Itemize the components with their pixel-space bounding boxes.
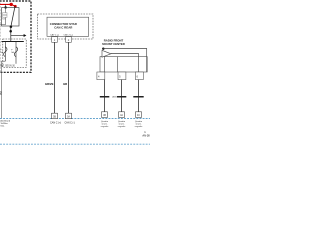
label under splice 2 (118, 120, 126, 128)
wire pin2 feed (117, 57, 119, 72)
wire fused output left (2, 61, 6, 118)
pin 1 (52, 37, 58, 43)
splice radio 1 (102, 112, 108, 118)
splice radio 2 (119, 112, 125, 118)
wire radio 3 (138, 80, 140, 112)
pin C (135, 72, 143, 80)
wire coil feed stub (5, 4, 7, 7)
svg-text:5A: 5A (67, 115, 70, 118)
connector tick 3 (133, 96, 143, 98)
svg-text:CAN C (-): CAN C (-) (64, 122, 75, 125)
label under splice 3 (135, 120, 143, 128)
relay switch lever (11, 6, 15, 27)
pin B (118, 72, 126, 80)
wire branch with arrow (11, 35, 24, 37)
fuse F1 (4, 42, 7, 62)
wire radio 1 (104, 80, 106, 112)
fuse F2 (14, 42, 17, 64)
svg-text:CAV 1 (-): CAV 1 (-) (50, 34, 59, 37)
relay K1 box (2, 8, 20, 26)
node lever bottom (10, 26, 13, 29)
connector star box (47, 17, 89, 36)
splice 2 (66, 113, 72, 119)
wire battery feed (red) (0, 4, 15, 6)
svg-text:segnale: segnale (101, 126, 109, 128)
node coil terminal (4, 6, 6, 8)
wire relay output (10, 27, 12, 42)
svg-text:CAV 2 (+): CAV 2 (+) (64, 34, 74, 37)
connector tick 1 (100, 96, 110, 98)
sheet break line 1 (0, 118, 150, 120)
svg-text:MOUNT CENTER: MOUNT CENTER (102, 42, 125, 46)
svg-text:4A: 4A (120, 114, 123, 117)
dashed enclosure fusebox region (0, 1, 31, 72)
connector tick 2 (117, 96, 127, 98)
node amp input (102, 48, 104, 50)
splice 1 (52, 113, 58, 119)
svg-text:5B: 5B (53, 116, 56, 118)
radio box (100, 57, 147, 72)
wire feedback (103, 49, 146, 73)
svg-text:Sist.: Sist. (0, 125, 5, 128)
svg-text:INT. SEGN 30: INT. SEGN 30 (0, 66, 15, 68)
dashed connector star region (38, 14, 94, 39)
node splice on red feed (10, 3, 13, 6)
svg-text:CAN C REAR: CAN C REAR (54, 25, 73, 29)
svg-text:CAN C (+): CAN C (+) (50, 122, 61, 125)
wire coil top (5, 8, 7, 13)
sheet break line 2 (0, 143, 150, 145)
pin 2 (66, 37, 72, 43)
svg-text:GR: GR (63, 82, 67, 86)
label under splice 1 (101, 120, 109, 128)
svg-text:segnale: segnale (135, 126, 143, 128)
dashed fuse group box (3, 39, 26, 67)
svg-text:4C: 4C (137, 115, 140, 117)
wire radio 2 (121, 80, 123, 112)
pin A (97, 72, 105, 80)
op-amp U1 (102, 50, 111, 57)
svg-text:GR/VE: GR/VE (45, 82, 54, 86)
svg-text:AN 08: AN 08 (142, 134, 150, 138)
node switch top contact (14, 5, 17, 8)
left sheet label (0, 120, 11, 128)
wire coil return to left (0, 17, 6, 24)
wire CAN low (54, 42, 56, 113)
relay coil (3, 13, 7, 18)
svg-text:4B: 4B (103, 115, 106, 117)
wire pin1 feed (103, 57, 105, 72)
splice radio 3 (136, 112, 142, 118)
svg-text:segnale: segnale (118, 126, 126, 128)
node branch junction (9, 30, 12, 33)
wire amp output (111, 54, 139, 73)
wire CAN high (68, 42, 70, 113)
bus bar (2, 41, 24, 43)
